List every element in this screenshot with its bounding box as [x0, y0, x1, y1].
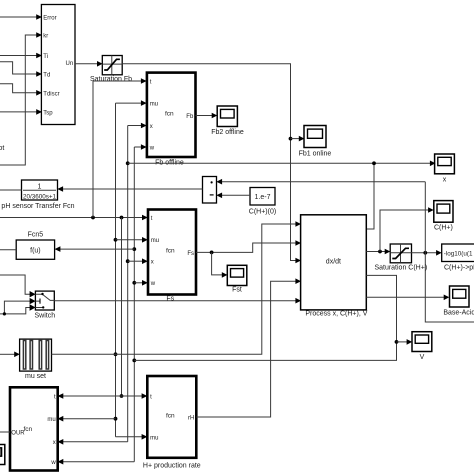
- junction V wire / V scope: [395, 340, 399, 344]
- junction w-bus / V feedback: [132, 359, 136, 363]
- wire Process Base-Acid output to scope: [366, 295, 449, 301]
- svg-text:Fb2 offline: Fb2 offline: [211, 129, 244, 136]
- svg-text:kr: kr: [43, 34, 48, 40]
- fcn block C(H+)->pH: [442, 244, 474, 262]
- wire Saturation C(H+) output to C(H+)->pH block: [412, 250, 442, 256]
- svg-text:rH: rH: [188, 416, 194, 422]
- fcn block Fs: [148, 210, 196, 295]
- svg-text:pH sensor Transfer Fcn: pH sensor Transfer Fcn: [1, 203, 74, 210]
- pulse source block mu set: [20, 339, 52, 371]
- wire Td input: [0, 62, 42, 77]
- svg-text:ot: ot: [0, 145, 4, 152]
- scope Fb2 offline: [217, 106, 237, 127]
- wire Error input: [0, 14, 42, 20]
- junction x-bus / x feedback: [126, 161, 130, 165]
- svg-text:Switch: Switch: [34, 313, 55, 320]
- wire Process C(H+) output to Saturation C(H+): [366, 249, 390, 255]
- scope Base-Acid: [450, 286, 470, 307]
- wire Ti input: [0, 53, 42, 59]
- svg-text:C(H+)(0): C(H+)(0): [249, 209, 276, 216]
- wire t1-bus up to Fb offline t: [93, 78, 147, 217]
- svg-text:Un: Un: [66, 61, 74, 67]
- svg-text:Saturation Fb: Saturation Fb: [90, 76, 132, 83]
- svg-text:Fb1 online: Fb1 online: [299, 151, 332, 158]
- junction x feedback / x scope: [372, 161, 376, 165]
- svg-text:C(H+): C(H+): [434, 225, 453, 232]
- wire t2-bus to OUR t: [58, 393, 122, 399]
- wire Un to Saturation Fb: [75, 61, 103, 67]
- switch block Switch: [35, 291, 54, 310]
- wire w-bus to Fb offline w: [134, 144, 146, 150]
- svg-text:1.e-7: 1.e-7: [255, 194, 271, 201]
- svg-text:x: x: [443, 177, 447, 184]
- svg-text:Saturation C(H+): Saturation C(H+): [374, 265, 427, 272]
- wire kr input: [0, 32, 42, 165]
- wire t2-bus to H+ t: [122, 393, 148, 399]
- svg-text:fcn: fcn: [165, 111, 174, 118]
- junction t-wire / t2-bus: [120, 216, 124, 220]
- wire mu-bus vertical: [115, 103, 117, 437]
- svg-text:mu: mu: [150, 435, 158, 441]
- svg-text:fcn: fcn: [24, 426, 33, 433]
- wire mu-bus to H+ mu: [116, 434, 148, 440]
- junction saturation output / feedback: [423, 251, 427, 255]
- wire Tdiscr input: [0, 84, 42, 96]
- wire to Fb1 online scope: [291, 136, 305, 142]
- svg-text:Process x, C(H+), V: Process x, C(H+), V: [305, 311, 367, 318]
- scope Fb1 online: [304, 126, 326, 148]
- scope x: [435, 154, 455, 174]
- wire pH sensor TF output to left edge: [0, 189, 22, 191]
- wire mu-bus to Fb offline mu: [116, 100, 147, 106]
- svg-text:mu set: mu set: [25, 373, 46, 380]
- wire mu-bus to Fs mu: [114, 237, 148, 243]
- scope Fst: [227, 265, 247, 285]
- svg-text:20/3600s+1: 20/3600s+1: [23, 194, 57, 201]
- wire w-bus to Fcn5 input: [55, 246, 137, 252]
- wire Switch output to Process input 5: [54, 298, 301, 304]
- wire into V scope: [397, 339, 413, 345]
- wire t2-bus vertical: [121, 218, 123, 397]
- wire sum output to pH sensor Transfer Fcn: [57, 186, 202, 192]
- svg-text:V: V: [420, 354, 425, 361]
- svg-text:Fb: Fb: [186, 114, 194, 120]
- wire Process V output to V scope and w feedback: [134, 275, 396, 360]
- svg-text:Tdiscr: Tdiscr: [43, 91, 59, 97]
- constant block C(H+)(0) value 1.e-7: [250, 188, 275, 206]
- svg-text:Fst: Fst: [232, 287, 242, 294]
- scope V: [412, 332, 432, 352]
- svg-text:Base-Acid: Base-Acid: [443, 310, 474, 317]
- svg-text:fcn: fcn: [166, 247, 175, 254]
- junction t2-bus bottom: [120, 394, 124, 398]
- wire mu set input: [0, 352, 20, 358]
- wire Fcn5 output to left edge: [0, 249, 16, 251]
- svg-text:H+ production rate: H+ production rate: [143, 463, 201, 470]
- wire Fs output branch to Fst scope: [212, 252, 228, 277]
- svg-text:Fs: Fs: [166, 296, 174, 303]
- junction at Fb wire to Fb1 online: [289, 137, 293, 141]
- svg-text:x: x: [150, 124, 153, 130]
- junction mu-bus / mu set wire: [114, 352, 118, 356]
- wire w-bus vertical: [133, 147, 135, 462]
- wire mu-bus to OUR mu: [58, 416, 118, 422]
- wire x-bus to Fb offline x: [128, 123, 147, 129]
- wire Fb offline output to Fb2 offline scope: [196, 113, 218, 119]
- svg-text:Fs: Fs: [187, 251, 194, 257]
- svg-text:Tsp: Tsp: [43, 110, 53, 116]
- wire t feed (from left edge) to Fs t input: [0, 215, 148, 221]
- wire x-bus vertical: [127, 126, 129, 442]
- saturation block Saturation Fb: [102, 56, 122, 75]
- fcn block OUR: [10, 387, 58, 470]
- svg-text:dx/dt: dx/dt: [326, 259, 341, 266]
- scope C(H+): [434, 201, 453, 223]
- wire mu set output to Process input 1: [52, 221, 302, 354]
- svg-text:mu: mu: [150, 102, 158, 108]
- scope cropped at left edge: [0, 445, 5, 465]
- svg-text:fcn: fcn: [166, 413, 175, 420]
- fcn block Fcn5 f(u): [16, 240, 54, 259]
- junction t-wire / t1-bus: [91, 216, 95, 220]
- sum block: [203, 177, 217, 204]
- process block Process x, C(H+), V: [301, 215, 367, 310]
- wire switch inputs 2 and 3: [0, 298, 36, 316]
- transfer fcn block pH sensor Transfer Fcn: [22, 180, 58, 201]
- wire Tsp input: [0, 109, 42, 115]
- fcn block H+ production rate: [147, 376, 196, 458]
- svg-text:x: x: [53, 440, 56, 446]
- fcn block Fb offline: [147, 73, 196, 157]
- svg-text:mu: mu: [151, 238, 159, 244]
- svg-text:-log10(u(1: -log10(u(1: [444, 250, 473, 257]
- wire x-bus to OUR x: [58, 439, 128, 445]
- svg-text:mu: mu: [47, 417, 55, 423]
- svg-text:Td: Td: [43, 73, 50, 79]
- svg-text:f(u): f(u): [30, 247, 41, 254]
- wire switch input 1: [0, 275, 36, 297]
- svg-text:Ti: Ti: [43, 54, 48, 60]
- wire Fs output to Process input 2: [196, 240, 301, 252]
- wire 1.e-7 to sum minus input: [216, 193, 250, 199]
- wire w-bus to OUR w: [58, 459, 135, 465]
- svg-text:w: w: [149, 145, 155, 151]
- svg-text:x: x: [151, 260, 154, 266]
- svg-text:1: 1: [38, 184, 42, 191]
- svg-text:Error: Error: [43, 16, 56, 22]
- svg-text:Fcn5: Fcn5: [28, 232, 44, 239]
- svg-text:w: w: [150, 281, 156, 287]
- wire Saturation Fb output to Process input 3 (long, via x=290.5): [122, 64, 301, 263]
- wire x-bus to Fs x: [126, 258, 148, 264]
- wire OUR output to left edge: [0, 431, 10, 433]
- wire C(H+) feedback to sum block: [216, 179, 425, 185]
- svg-text:C(H+)->pH: C(H+)->pH: [444, 265, 474, 272]
- junction Fs output / Fst branch: [210, 251, 214, 255]
- PID controller block U1: [41, 5, 75, 125]
- wire feedback up-left to sum and down-right offscreen: [425, 182, 474, 322]
- saturation block Saturation C(H+): [390, 244, 411, 263]
- wire w-bus to Fs w: [132, 280, 147, 286]
- junction C(H+) output / scope branch: [378, 250, 382, 254]
- svg-text:w: w: [50, 460, 56, 466]
- wire x feedback (from Process x output to x scope and left bus): [128, 161, 436, 230]
- wire H+ production rate output to Process input 4: [196, 278, 301, 417]
- wire branch to C(H+) scope: [380, 207, 434, 251]
